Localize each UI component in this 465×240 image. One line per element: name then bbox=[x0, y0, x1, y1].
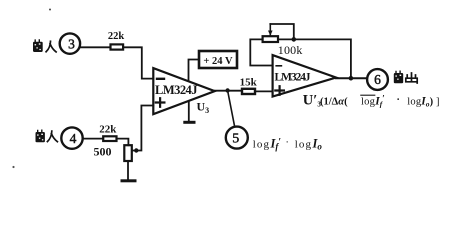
svg-text:+ 24 V: + 24 V bbox=[203, 56, 233, 67]
wire R2 to R3 top bbox=[117, 139, 129, 146]
wire R1 to opamp U3 inverting input bbox=[123, 47, 153, 78]
wire U3 output to R4 bbox=[215, 90, 242, 92]
scan speck left bbox=[12, 166, 14, 168]
resistor R1 22k bbox=[108, 31, 125, 50]
label 输出 (output) bbox=[394, 71, 417, 83]
label 输入 (input, upper) bbox=[33, 40, 56, 52]
svg-text:4: 4 bbox=[70, 131, 77, 146]
op-amp U3 LM324J bbox=[153, 68, 214, 115]
wire terminal4 to R2 bbox=[83, 138, 103, 140]
potentiometer RP1 100k bbox=[263, 24, 303, 57]
overline artifact above log bbox=[361, 94, 375, 96]
svg-text:3: 3 bbox=[68, 37, 75, 52]
ground (U3) bbox=[185, 121, 194, 124]
wire RP1 to output node bbox=[278, 39, 351, 78]
svg-text:LM324J: LM324J bbox=[275, 71, 311, 83]
svg-text:500: 500 bbox=[94, 145, 112, 159]
scan speck bbox=[49, 9, 51, 11]
wire RP1 wiper loop bbox=[270, 24, 294, 39]
wire junction to terminal 5 bbox=[228, 91, 235, 127]
svg-text:LM324J: LM324J bbox=[155, 83, 198, 97]
terminal 3 bbox=[60, 33, 80, 53]
ground (R3) bbox=[122, 179, 135, 182]
junction node 5 branch bbox=[225, 88, 229, 92]
wire R4 to U'3 noninverting input bbox=[255, 90, 273, 92]
wire U'3 inverting input to RP1 bbox=[250, 39, 272, 65]
svg-text:6: 6 bbox=[374, 72, 381, 87]
svg-text:logIf′·logIo: logIf′·logIo bbox=[253, 136, 323, 151]
wire node R3 to U3 noninverting input bbox=[132, 106, 153, 151]
wire terminal3 to R1 bbox=[80, 46, 111, 48]
power +24V box bbox=[199, 51, 237, 68]
label 输入 (input, lower) bbox=[36, 130, 58, 142]
junction feedback to output bbox=[349, 76, 354, 81]
resistor R2 22k bbox=[99, 123, 117, 141]
svg-text:15k: 15k bbox=[240, 77, 258, 89]
wire supply to +24V box bbox=[189, 60, 200, 82]
svg-text:22k: 22k bbox=[108, 31, 125, 42]
wire U'3 output to terminal 6 bbox=[336, 77, 366, 79]
op-amp U'3 LM324J bbox=[273, 55, 336, 96]
svg-text:100k: 100k bbox=[278, 43, 303, 57]
junction at R3 tap bbox=[134, 148, 138, 152]
wire R3 to ground bbox=[127, 161, 129, 180]
svg-text:U3: U3 bbox=[197, 100, 210, 116]
resistor R3 500 bbox=[94, 145, 132, 162]
svg-text:22k: 22k bbox=[99, 123, 117, 135]
terminal 6 bbox=[367, 69, 388, 90]
svg-text:5: 5 bbox=[232, 132, 239, 147]
junction wiper to feedback bbox=[292, 37, 297, 42]
terminal 5 bbox=[226, 127, 248, 149]
terminal 4 bbox=[61, 127, 82, 148]
resistor R4 15k bbox=[240, 77, 258, 95]
wire U3 to ground bbox=[188, 102, 190, 121]
